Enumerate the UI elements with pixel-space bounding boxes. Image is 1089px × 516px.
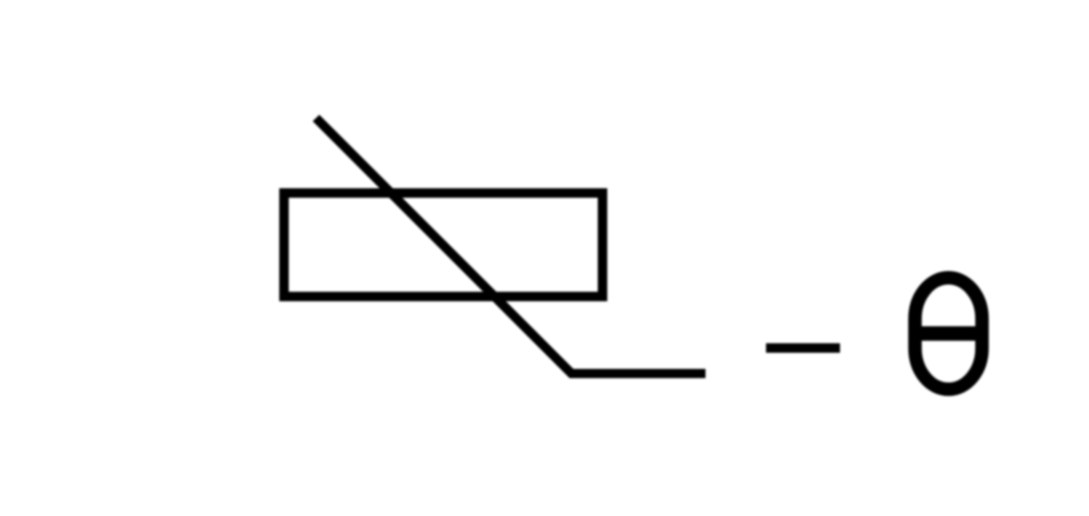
minus sign of -θ label bbox=[766, 343, 840, 353]
thermistor diagonal stroke with horizontal foot bbox=[316, 118, 706, 374]
thermistor RT1 body rectangle bbox=[284, 193, 603, 297]
theta glyph crossbar bbox=[909, 326, 988, 341]
theta glyph oval of -θ label bbox=[915, 278, 982, 390]
